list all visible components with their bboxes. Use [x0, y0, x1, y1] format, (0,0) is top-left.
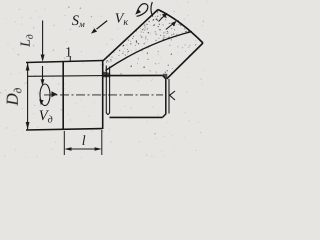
journal top edge: [104, 74, 163, 76]
svg-text:l: l: [82, 134, 86, 149]
workpiece body bottom edge: [26, 129, 102, 130]
center hole mark: [170, 91, 175, 100]
wheel rim in front of journal: [106, 66, 109, 115]
journal end face: [163, 75, 166, 117]
workpiece shoulder right edge: [102, 61, 104, 130]
wheel corner dark patch: [103, 72, 110, 78]
svg-text:1: 1: [65, 46, 72, 61]
Sм feed arrow: [97, 21, 108, 30]
journal inner end line: [168, 79, 170, 114]
Lд dimension line with arrow: [42, 21, 44, 61]
grinding wheel end cap arc: [158, 10, 203, 44]
grinding wheel lower silhouette curve: [106, 32, 193, 71]
grinding wheel lower-right edge: [167, 43, 203, 79]
end-face tick arrow 1: [159, 13, 168, 22]
journal top line extended through body: [28, 75, 104, 78]
second small arrow to journal line: [42, 66, 44, 80]
workpiece body top edge: [26, 61, 103, 63]
wheel stipple: [100, 11, 196, 75]
end-face tick arrow 2: [166, 21, 177, 30]
Dд dimension line with arrows: [27, 63, 29, 129]
journal bottom edge: [110, 116, 163, 118]
grinding wheel upper-left edge: [103, 10, 158, 61]
workpiece body left edge: [62, 62, 64, 130]
Vк rotation curl arrow: [137, 4, 148, 17]
scan noise: [0, 0, 209, 159]
junction blob: [163, 74, 168, 79]
centerline: [44, 94, 163, 96]
Vд rotation ellipse: [40, 84, 50, 106]
l dimension: [63, 131, 65, 155]
centerline arrowhead: [51, 91, 57, 97]
